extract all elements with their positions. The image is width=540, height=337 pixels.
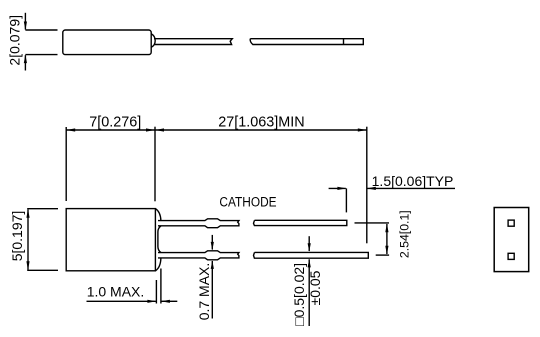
svg-text:2[0.079]: 2[0.079] — [7, 15, 23, 66]
svg-text:±0.05: ±0.05 — [307, 270, 323, 305]
svg-text:0.7 MAX.: 0.7 MAX. — [196, 263, 212, 321]
svg-text:27[1.063]MIN: 27[1.063]MIN — [218, 114, 304, 130]
svg-text:5[0.197]: 5[0.197] — [9, 211, 25, 262]
svg-text:CATHODE: CATHODE — [219, 194, 276, 210]
svg-text:1.0 MAX.: 1.0 MAX. — [87, 284, 145, 300]
svg-text:1.5[0.06]TYP: 1.5[0.06]TYP — [372, 173, 454, 189]
svg-text:□0.5[0.02]: □0.5[0.02] — [291, 263, 307, 326]
svg-text:7[0.276]: 7[0.276] — [89, 115, 141, 131]
svg-text:2.54[0.1]: 2.54[0.1] — [398, 210, 412, 258]
